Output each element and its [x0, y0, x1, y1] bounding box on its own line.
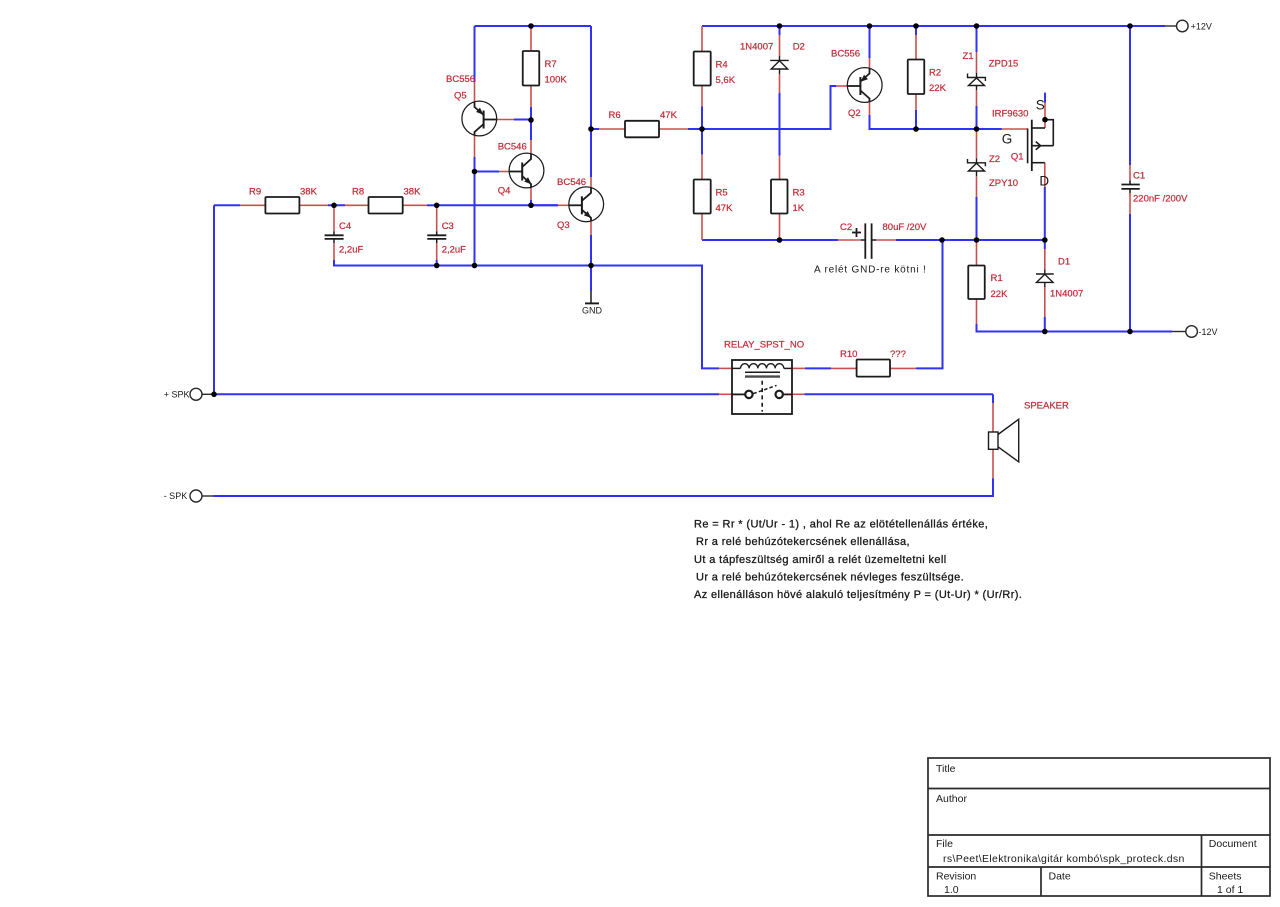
svg-text:1N4007: 1N4007	[740, 42, 773, 53]
svg-text:2,2uF: 2,2uF	[339, 245, 363, 256]
svg-text:5,6K: 5,6K	[716, 75, 736, 86]
svg-text:+ SPK: + SPK	[164, 389, 190, 399]
svg-text:R1: R1	[991, 273, 1003, 284]
svg-text:BC546: BC546	[557, 177, 586, 188]
svg-text:47K: 47K	[660, 110, 678, 121]
svg-text:220nF /200V: 220nF /200V	[1133, 194, 1188, 205]
svg-text:22K: 22K	[991, 289, 1009, 300]
svg-text:BC556: BC556	[446, 74, 475, 85]
svg-text:Author: Author	[936, 793, 967, 805]
svg-text:SPEAKER: SPEAKER	[1024, 401, 1069, 412]
svg-text:38K: 38K	[300, 187, 318, 198]
svg-text:100K: 100K	[545, 75, 568, 86]
svg-text:Revision: Revision	[936, 871, 976, 883]
svg-text:-12V: -12V	[1199, 327, 1218, 337]
svg-text:Ur a relé behúzótekercsének né: Ur a relé behúzótekercsének névleges fes…	[696, 572, 964, 584]
svg-text:R4: R4	[716, 60, 728, 71]
svg-text:C3: C3	[442, 221, 454, 232]
svg-text:ZPD15: ZPD15	[989, 59, 1019, 70]
svg-text:G: G	[1002, 132, 1013, 147]
svg-text:- SPK: - SPK	[164, 491, 188, 501]
svg-text:Q4: Q4	[498, 185, 511, 196]
svg-text:Title: Title	[936, 763, 956, 775]
svg-text:+12V: +12V	[1191, 22, 1212, 32]
svg-text:C2: C2	[840, 222, 852, 233]
svg-text:1.0: 1.0	[944, 884, 959, 896]
svg-text:Az ellenálláson hövé alakuló t: Az ellenálláson hövé alakuló teljesítmén…	[694, 589, 1022, 601]
svg-text:Ut a tápfeszültség amiről a re: Ut a tápfeszültség amiről a relét üzemel…	[694, 554, 947, 566]
svg-text:Q5: Q5	[454, 91, 467, 102]
svg-text:1K: 1K	[793, 203, 805, 214]
svg-text:C1: C1	[1133, 170, 1145, 181]
svg-text:R10: R10	[840, 349, 857, 360]
svg-text:Document: Document	[1209, 838, 1257, 850]
svg-text:R3: R3	[793, 187, 805, 198]
svg-text:Date: Date	[1049, 871, 1071, 883]
svg-text:???: ???	[890, 349, 906, 360]
svg-text:GND: GND	[582, 306, 603, 316]
svg-text:Q3: Q3	[557, 220, 570, 231]
svg-text:1 of 1: 1 of 1	[1217, 884, 1243, 896]
svg-text:File: File	[936, 838, 953, 850]
svg-text:Z2: Z2	[989, 154, 1000, 165]
svg-text:R2: R2	[929, 68, 941, 79]
svg-text:Q2: Q2	[848, 108, 861, 119]
svg-text:Re = Rr * (Ut/Ur - 1) , ahol R: Re = Rr * (Ut/Ur - 1) , ahol Re az elöté…	[694, 519, 988, 531]
svg-text:Sheets: Sheets	[1209, 871, 1242, 883]
svg-text:R8: R8	[352, 187, 364, 198]
svg-text:38K: 38K	[404, 187, 422, 198]
svg-text:D2: D2	[793, 42, 805, 53]
svg-text:BC546: BC546	[498, 142, 527, 153]
svg-text:2,2uF: 2,2uF	[442, 245, 466, 256]
svg-text:C4: C4	[339, 221, 351, 232]
svg-text:D1: D1	[1058, 257, 1070, 268]
svg-text:1N4007: 1N4007	[1050, 289, 1083, 300]
svg-text:RELAY_SPST_NO: RELAY_SPST_NO	[724, 340, 804, 351]
svg-text:R9: R9	[249, 187, 261, 198]
svg-text:IRF9630: IRF9630	[992, 109, 1028, 120]
svg-text:ZPY10: ZPY10	[989, 178, 1018, 189]
svg-text:R5: R5	[716, 187, 728, 198]
svg-text:S: S	[1036, 98, 1045, 113]
svg-text:80uF /20V: 80uF /20V	[883, 222, 927, 233]
svg-text:BC556: BC556	[831, 49, 860, 60]
svg-text:Rr a relé behúzótekercsének el: Rr a relé behúzótekercsének ellenállása,	[696, 536, 910, 548]
svg-text:Q1: Q1	[1011, 152, 1024, 163]
svg-text:D: D	[1039, 173, 1049, 188]
svg-text:R7: R7	[545, 59, 557, 70]
svg-text:R6: R6	[609, 110, 621, 121]
svg-text:Z1: Z1	[963, 51, 974, 62]
svg-text:A relét GND-re kötni !: A relét GND-re kötni !	[814, 265, 927, 276]
svg-text:rs\Peet\Elektronika\gitár komb: rs\Peet\Elektronika\gitár kombó\spk_prot…	[943, 853, 1185, 865]
svg-text:22K: 22K	[929, 83, 947, 94]
svg-text:47K: 47K	[716, 203, 734, 214]
